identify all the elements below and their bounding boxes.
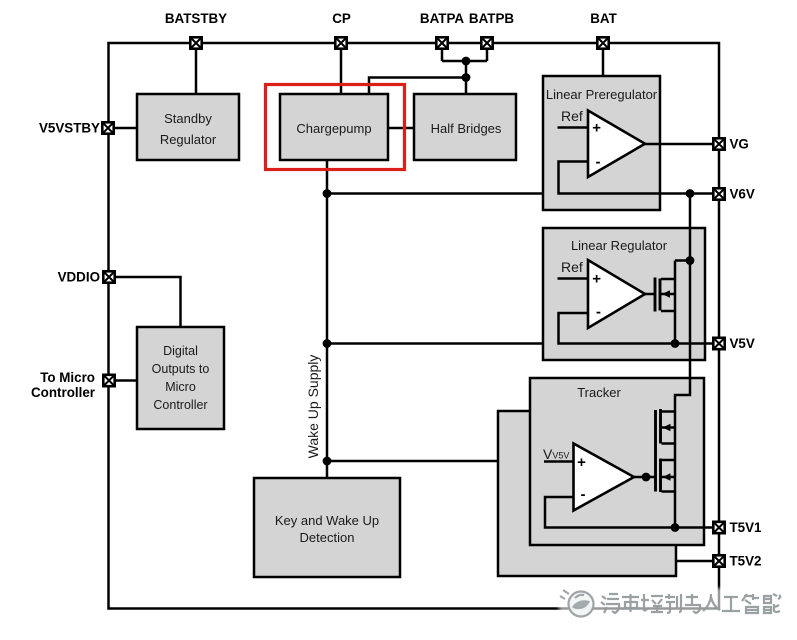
- wire BAT to Linear Preregulator: [602, 43, 605, 77]
- wire BATSTBY to Standby Regulator: [195, 43, 198, 94]
- svg-text:V6V: V6V: [730, 187, 755, 202]
- block Digital Outputs to Micro Controller: [137, 327, 224, 429]
- svg-text:Regulator: Regulator: [160, 132, 217, 147]
- block Tracker: [530, 378, 704, 545]
- svg-text:Standby: Standby: [164, 111, 212, 126]
- transistor Q2 tracker upper PMOS: [656, 409, 676, 492]
- block Chargepump: [280, 94, 388, 160]
- node chargepump half-bridge junction: [462, 73, 471, 82]
- node tracker gate junction: [642, 473, 651, 482]
- svg-text:V5VSTBY: V5VSTBY: [39, 121, 100, 136]
- svg-text:+: +: [592, 271, 601, 288]
- wire V5V feeder left segment: [327, 342, 543, 345]
- transistor Q3 tracker lower PMOS: [661, 459, 676, 493]
- svg-text:BATPA: BATPA: [420, 11, 464, 26]
- svg-text:Linear Regulator: Linear Regulator: [571, 238, 668, 253]
- 车: [621, 594, 640, 612]
- node V5V output junction: [671, 339, 680, 348]
- wire V6V rail down to Tracker: [675, 194, 690, 528]
- wire merge node to Half Bridges: [465, 61, 468, 94]
- svg-text:T5V2: T5V2: [730, 554, 762, 569]
- watermark text 汽车控制与人工智能: [601, 594, 780, 613]
- node T5V1 output junction: [671, 523, 680, 532]
- svg-text:T5V1: T5V1: [730, 520, 763, 535]
- op-amp U1 Linear Preregulator: [558, 108, 646, 177]
- svg-text:Ref: Ref: [561, 259, 583, 275]
- pin To Micro Controller: [31, 370, 115, 400]
- wire Chargepump output over to Half Bridges input: [369, 78, 466, 95]
- wire T5V2 net: [676, 560, 713, 563]
- svg-text:To Micro: To Micro: [40, 370, 95, 385]
- block Linear Regulator: [543, 228, 705, 360]
- svg-text:Ref: Ref: [561, 108, 583, 124]
- 与: [685, 594, 700, 613]
- wire To Micro Controller pin to Digital Outputs: [108, 379, 137, 382]
- wire VG output: [645, 143, 713, 146]
- pin BAT: [590, 11, 617, 49]
- node wake supply tracker tap: [323, 457, 332, 466]
- svg-text:-: -: [596, 154, 601, 171]
- pin T5V2: [713, 554, 761, 569]
- svg-text:Key and Wake Up: Key and Wake Up: [275, 513, 379, 528]
- transistor Q1 linear regulator pass PMOS: [655, 261, 690, 344]
- node wake supply V6V tap: [323, 189, 332, 198]
- svg-text:Wake Up Supply: Wake Up Supply: [305, 355, 321, 459]
- svg-text:Controller: Controller: [31, 385, 96, 400]
- 汽: [601, 594, 619, 613]
- wire V5VSTBY to Standby Regulator: [108, 127, 137, 130]
- pin VG: [713, 137, 749, 152]
- block Half Bridges: [414, 94, 516, 160]
- wire CP to Chargepump: [340, 43, 343, 94]
- wire preregulator feedback and V6V net: [559, 162, 714, 194]
- svg-text:VDDIO: VDDIO: [58, 270, 100, 285]
- svg-text:Micro: Micro: [165, 380, 196, 394]
- wire Tracker input left segment: [327, 460, 497, 463]
- svg-text:Chargepump: Chargepump: [296, 121, 371, 136]
- svg-text:VG: VG: [730, 137, 749, 152]
- 人: [703, 594, 720, 611]
- svg-text:Detection: Detection: [300, 530, 355, 545]
- wire outer frame: [109, 43, 720, 609]
- node linear regulator drain junction: [686, 256, 695, 265]
- watermark glow: [558, 588, 780, 617]
- svg-text:BATSTBY: BATSTBY: [165, 11, 227, 26]
- svg-text:CP: CP: [332, 11, 351, 26]
- node BATPA-BATPB junction: [462, 57, 471, 66]
- watermark logo: [560, 590, 594, 617]
- wire V6V feeder left segment: [327, 192, 543, 195]
- svg-text:Linear Preregulator: Linear Preregulator: [546, 87, 658, 102]
- wire BATPA-BATPB merge: [442, 60, 487, 63]
- block Linear Preregulator: [543, 76, 660, 210]
- node V6V junction: [686, 189, 695, 198]
- pin T5V1: [713, 520, 762, 535]
- pin V5V: [713, 336, 755, 351]
- svg-text:-: -: [596, 303, 601, 320]
- svg-text:Digital: Digital: [163, 344, 198, 358]
- svg-text:BATPB: BATPB: [469, 11, 514, 26]
- svg-text:Controller: Controller: [153, 398, 207, 412]
- wire tracker feedback and T5V1 net: [545, 497, 713, 528]
- block Standby Regulator: [137, 94, 239, 160]
- op-amp U3 Tracker: [543, 444, 655, 511]
- block Tracker outer supply box: [498, 411, 676, 576]
- svg-text:Outputs to: Outputs to: [152, 362, 210, 376]
- svg-text:+: +: [592, 119, 601, 136]
- pin V5VSTBY: [39, 121, 114, 136]
- svg-text:-: -: [581, 486, 586, 503]
- pin BATPA: [420, 11, 464, 49]
- wire chargepump highlight (red annotation box): [266, 85, 405, 170]
- svg-text:BAT: BAT: [590, 11, 617, 26]
- 工: [722, 597, 740, 611]
- op-amp U2 Linear Regulator: [558, 259, 655, 328]
- wire BATPA down: [441, 43, 444, 61]
- svg-text:Tracker: Tracker: [577, 385, 621, 400]
- wire VDDIO to Digital Outputs: [108, 277, 181, 327]
- pin VDDIO: [58, 270, 115, 285]
- svg-text:Half Bridges: Half Bridges: [431, 121, 502, 136]
- pin V6V: [713, 187, 755, 202]
- pin CP: [332, 11, 351, 49]
- svg-text:+: +: [577, 454, 586, 471]
- node wake supply V5V tap: [323, 339, 332, 348]
- 控: [641, 594, 663, 612]
- block Key and Wake Up Detection: [254, 478, 400, 577]
- wire Wake Up Supply vertical: [326, 160, 329, 478]
- svg-text:V5V: V5V: [730, 336, 755, 351]
- 制: [665, 594, 681, 613]
- 能: [764, 594, 780, 613]
- wire Chargepump to Half Bridges link: [388, 127, 414, 130]
- pin BATPB: [469, 11, 514, 49]
- wire BATPB down: [486, 43, 489, 61]
- pin BATSTBY: [165, 11, 227, 49]
- wire linear regulator feedback and V5V net: [559, 313, 714, 344]
- 智: [742, 594, 759, 613]
